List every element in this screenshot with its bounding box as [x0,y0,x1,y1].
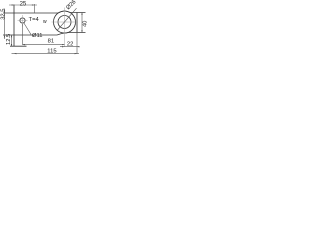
arrow 12.5 top [11,35,12,37]
arrow 25 right [32,4,34,5]
part outline: top edge [3,11,86,13]
centerline big circle vertical / ext line for 81,22 [64,8,66,48]
centerline small hole horizontal [18,20,28,22]
arrow Ø26 upper [69,17,71,19]
part outline: left edge [13,5,15,47]
arrow 115 right [75,53,77,54]
arrow 12.5 bottom [11,44,12,46]
part outline: bottom-left flange edge [10,45,27,47]
dim 22 line [60,46,80,48]
part outline: right flat edge [76,13,78,33]
leader Ø11 [24,23,31,35]
svg-text:w: w [43,19,47,25]
arrow 22 left [62,46,64,47]
centerline small hole vertical [22,15,24,27]
arrow 25 left [12,4,14,5]
svg-text:Ø11: Ø11 [32,33,43,39]
svg-text:32.5: 32.5 [0,9,6,20]
svg-text:22: 22 [67,42,73,48]
arrow 115 left [14,53,16,54]
arrow 81 right [62,44,64,45]
dim 40 line [81,13,83,33]
svg-text:T=4: T=4 [29,17,40,23]
dim 81 line [23,44,65,46]
svg-text:81: 81 [48,38,54,44]
arrow 81 left [23,44,25,45]
dim 32.5 line [4,9,6,40]
small hole Ø11 [20,18,25,23]
ext line 81 left (from small hole) [22,24,24,45]
svg-text:40: 40 [83,21,87,27]
arrow 32.5 top [4,11,5,13]
arrow 22 right [77,46,79,47]
dim 25 line [9,4,37,6]
arrow 40 top [81,13,82,15]
big circle outer Ø40 [54,11,76,33]
dim 12.5 line [11,35,13,46]
arrow Ø26 lower [58,25,60,27]
arrow 32.5 bottom [4,35,5,37]
big circle inner Ø26 [58,16,71,29]
svg-text:25: 25 [20,1,27,7]
ext line 25 right [33,4,35,13]
arrow 40 bottom [81,30,82,32]
svg-text:12.5: 12.5 [6,34,12,45]
dim Ø26 diagonal line [58,8,77,30]
ext line right edge down for 22,115 [76,33,78,54]
part outline: bend line / lower edge [3,33,86,36]
centerline big circle horizontal [52,21,79,23]
dim 115 line [12,53,80,55]
svg-text:115: 115 [47,48,56,54]
